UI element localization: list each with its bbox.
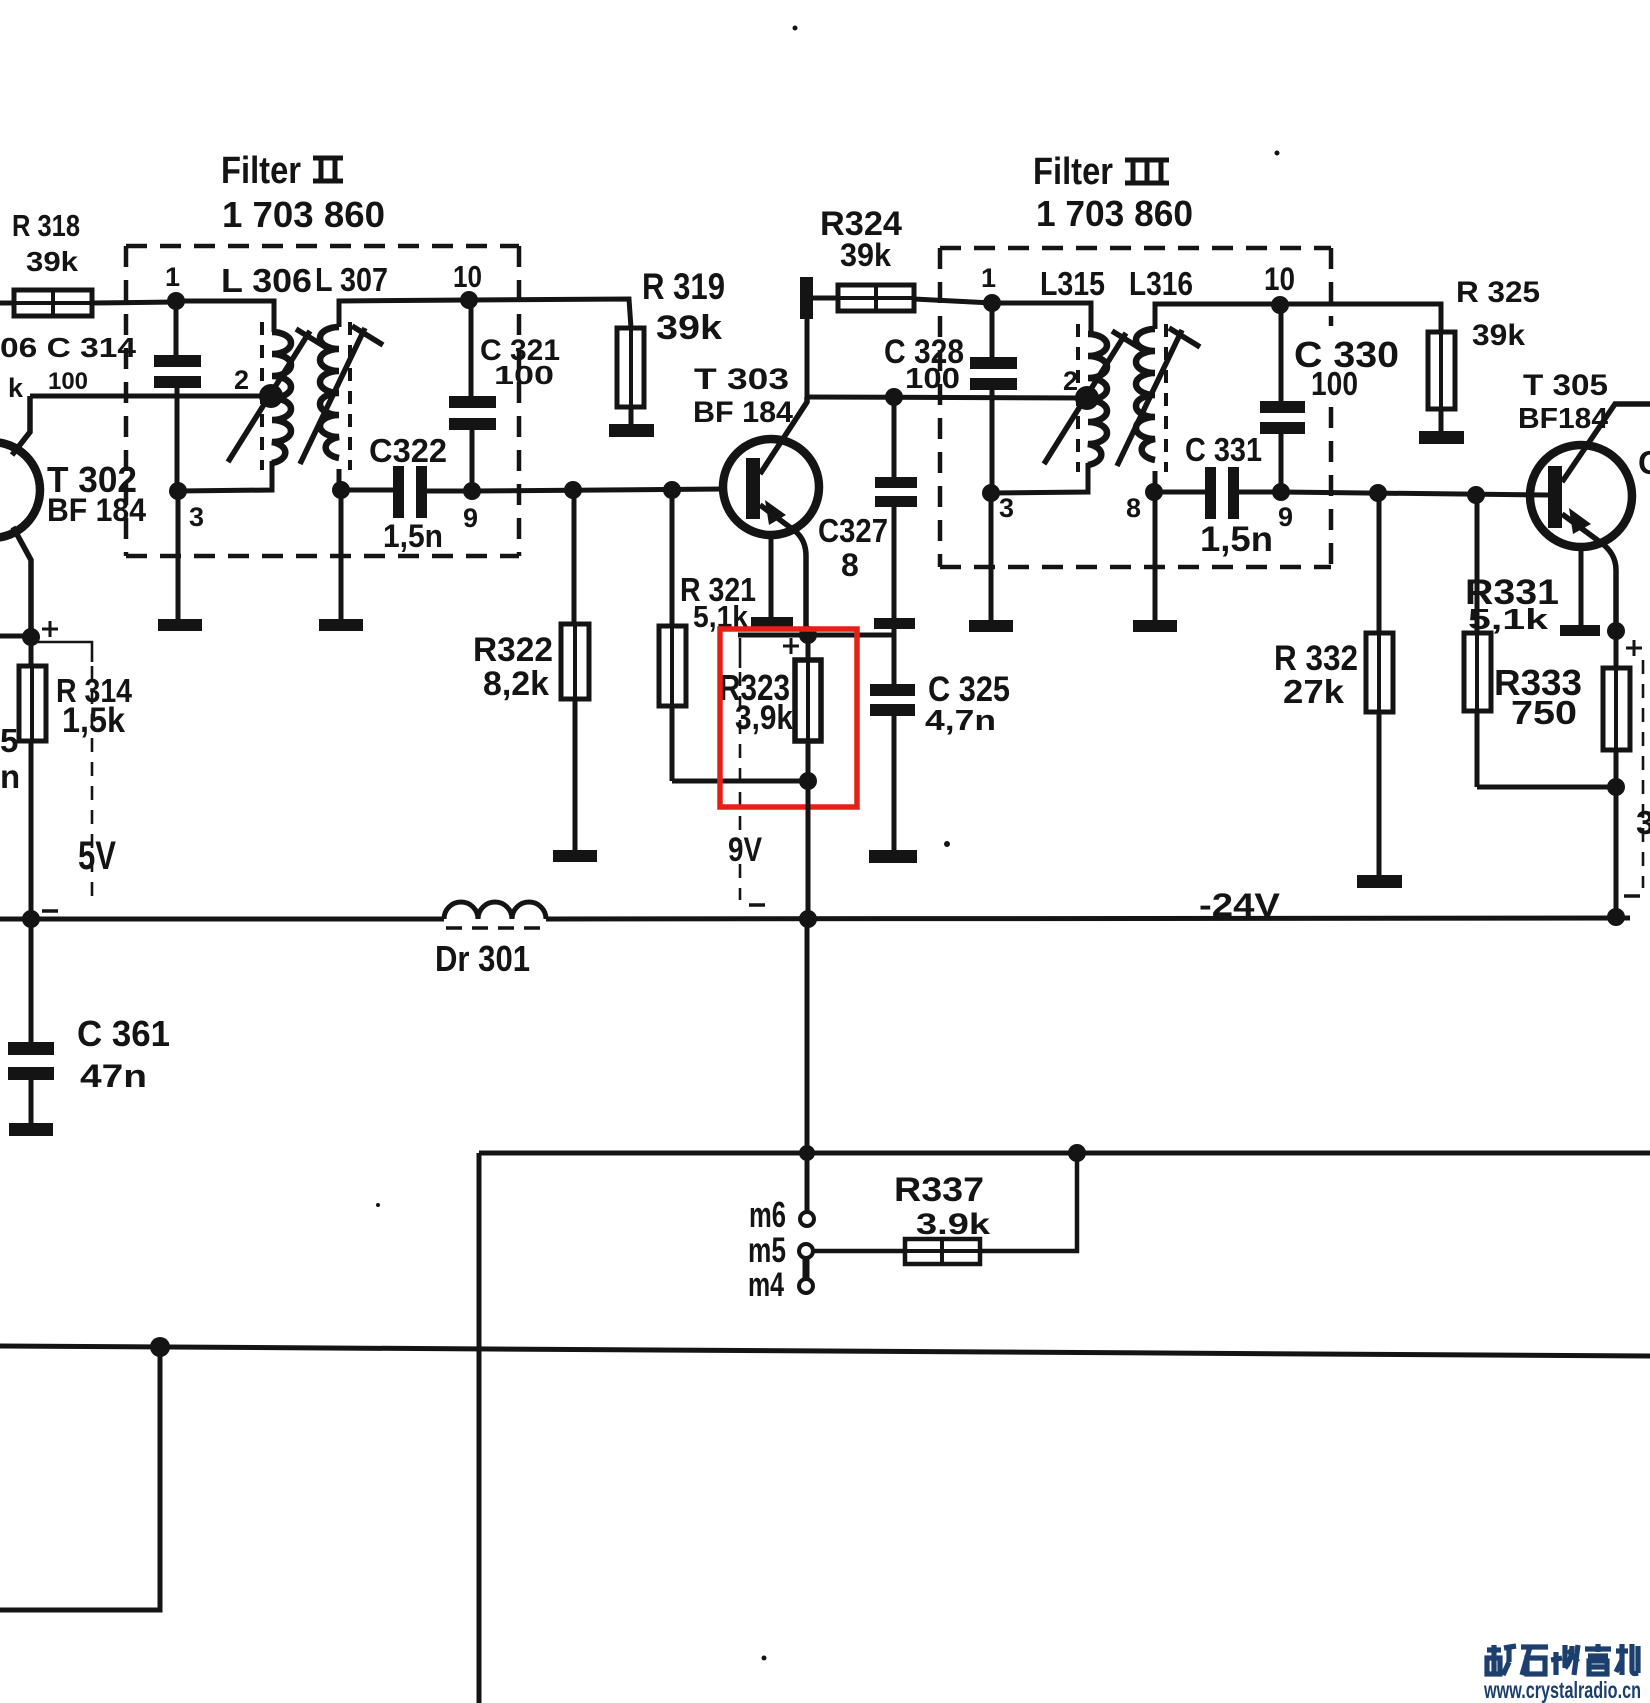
- wire m5 to R337: [813, 1249, 905, 1254]
- T303 collector lead: [760, 397, 807, 474]
- svg-text:10: 10: [453, 259, 482, 294]
- svg-text:m4: m4: [748, 1266, 784, 1304]
- T302 collector lead: [12, 396, 30, 455]
- node pin2 tap on L315: [1075, 386, 1099, 410]
- svg-text:C 361: C 361: [77, 1013, 170, 1054]
- wire node 3 to ground: [989, 493, 994, 621]
- wire L316 top to rail: [1155, 304, 1280, 329]
- wire L307 bottom node to ground: [339, 490, 344, 620]
- tuning arrow through L307: [300, 326, 383, 464]
- link m5 to m4: [803, 1256, 810, 1281]
- svg-text:T 303: T 303: [694, 363, 789, 396]
- capacitor C325: [870, 629, 915, 850]
- svg-text:3: 3: [189, 502, 204, 532]
- ground bar under C325: [869, 850, 917, 863]
- node R323 bottom junction dot: [799, 772, 817, 790]
- ground under C361: [9, 1123, 53, 1136]
- wire node 10 to R325 corner: [1280, 304, 1441, 332]
- T303 shield lead: [769, 535, 774, 618]
- svg-text:R337: R337: [894, 1171, 984, 1209]
- ground under pin 3: [158, 619, 202, 631]
- wire node 1 to L315 top corner: [992, 303, 1091, 334]
- T305 shield lead: [1579, 547, 1584, 626]
- ground bar T303 shield: [751, 617, 793, 628]
- svg-text:C327: C327: [818, 512, 888, 549]
- tuning arrow through L306: [228, 329, 327, 462]
- Filter III dashed box: [940, 248, 1331, 567]
- svg-text:Filter: Filter: [1033, 151, 1113, 193]
- node L307 bottom junction dot: [332, 481, 350, 499]
- wire base rail node9 to T303: [472, 489, 724, 491]
- wire emitter node rail: [738, 633, 894, 638]
- svg-text:100: 100: [1311, 365, 1358, 402]
- svg-text:Filter: Filter: [221, 150, 301, 192]
- svg-text:47n: 47n: [80, 1058, 147, 1094]
- svg-text:3: 3: [999, 493, 1014, 523]
- Filter II dashed box: [126, 246, 519, 556]
- connector m5: [799, 1244, 813, 1258]
- vertical line mid bottom: [477, 1153, 482, 1703]
- svg-text:1,5n: 1,5n: [383, 518, 443, 554]
- node 9 filter III junction dot: [1272, 483, 1290, 501]
- speck 4: [762, 1656, 767, 1661]
- node 1 filter III junction dot: [983, 294, 1001, 312]
- node R321 junction dot: [663, 481, 681, 499]
- wire node 10 to R319 corner: [469, 299, 631, 328]
- ground under L307: [319, 619, 363, 631]
- svg-text:C322: C322: [369, 432, 447, 469]
- bus -24V right segment: [546, 918, 1630, 919]
- svg-text:L315: L315: [1040, 265, 1105, 302]
- node R322 junction dot: [564, 481, 582, 499]
- svg-text:39k: 39k: [1472, 319, 1525, 352]
- svg-text:9V: 9V: [728, 831, 762, 869]
- ground under R319: [609, 424, 654, 437]
- svg-text:5: 5: [0, 722, 18, 759]
- speck 1: [793, 26, 798, 31]
- wire R331 bottom to R333 node: [1477, 785, 1615, 790]
- dashed annotation right: [1642, 660, 1645, 888]
- svg-text:BF184: BF184: [1518, 403, 1608, 435]
- svg-text:C: C: [1638, 444, 1650, 481]
- node C327 top junction dot: [885, 388, 903, 406]
- svg-text:8: 8: [841, 547, 859, 583]
- annotation line 9V: [739, 638, 742, 668]
- wire left edge to emitter node: [0, 634, 31, 639]
- capacitor C321: [449, 300, 496, 491]
- inductor L306 winding: [272, 332, 291, 463]
- node bus right junction dot: [1607, 908, 1625, 926]
- resistor R319: [617, 328, 644, 424]
- node bus left junction dot: [22, 910, 40, 928]
- svg-text:3,9k: 3,9k: [735, 699, 793, 737]
- capacitor C328: [970, 303, 1017, 493]
- transistor T303 circle: [723, 439, 819, 535]
- svg-text:m5: m5: [748, 1231, 786, 1270]
- resistor R333: [1603, 631, 1630, 787]
- svg-text:1,5n: 1,5n: [1200, 520, 1273, 559]
- wire R323 bottom node down to bus: [806, 781, 811, 919]
- bus -24V left segment: [0, 917, 444, 922]
- wire top-left input to R318: [0, 301, 16, 306]
- resistor R318: [14, 290, 92, 316]
- tuning arrow through L315: [1044, 331, 1143, 464]
- T305 emitter lead: [1562, 514, 1616, 631]
- connector m4: [799, 1279, 813, 1293]
- svg-text:2: 2: [234, 365, 249, 395]
- node R323 top junction dot: [799, 626, 817, 644]
- T303 base bar: [746, 458, 760, 519]
- wire C322 to node 9: [427, 489, 472, 494]
- resistor R323: [795, 635, 821, 781]
- T305 emitter arrowhead: [1569, 508, 1591, 534]
- svg-text:n: n: [0, 758, 20, 795]
- svg-text:Dr 301: Dr 301: [435, 938, 530, 979]
- node T305 emitter junction dot: [1607, 622, 1625, 640]
- svg-text:1 703 860: 1 703 860: [1036, 193, 1193, 234]
- svg-text:-24V: -24V: [1199, 887, 1281, 923]
- resistor R337: [905, 1239, 980, 1264]
- transistor T302 circle (cut at left edge): [0, 442, 40, 538]
- svg-text:m6: m6: [749, 1194, 786, 1235]
- R324 left terminal bar: [800, 277, 813, 319]
- svg-text:5V: 5V: [78, 834, 116, 878]
- svg-text:100: 100: [905, 363, 960, 395]
- long horizontal line lower: [0, 1346, 1650, 1356]
- bar on C327 column: [874, 618, 915, 629]
- ground bar T305 shield: [1560, 625, 1600, 636]
- node 8 junction dot: [1145, 483, 1163, 501]
- horizontal rail to AGC line: [479, 1151, 1650, 1156]
- plus mark right annotation: [1626, 640, 1642, 656]
- wire R337 to riser: [980, 1153, 1077, 1251]
- svg-text:BF 184: BF 184: [47, 492, 146, 528]
- capacitor C361: [8, 919, 54, 1123]
- svg-text:R322: R322: [473, 631, 553, 669]
- node R337 riser junction dot: [1068, 1144, 1086, 1162]
- resistor R325: [1428, 332, 1455, 431]
- minus mark 5V: [42, 909, 58, 913]
- core dashed line left of L306: [260, 322, 264, 470]
- inductor L315 winding: [1088, 334, 1107, 465]
- node 3 filter III junction dot: [982, 484, 1000, 502]
- wire L316 bottom to node 8: [1153, 471, 1158, 492]
- node bus middle junction dot: [799, 910, 817, 928]
- svg-text:R 319: R 319: [642, 266, 725, 307]
- svg-text:k: k: [8, 373, 24, 403]
- resistor R332: [1366, 493, 1393, 875]
- wire L307 top to top rail: [339, 300, 469, 327]
- core dashed line left of L315: [1076, 324, 1080, 472]
- wire R318 to node 1: [92, 302, 176, 303]
- svg-text:L 307: L 307: [315, 261, 388, 298]
- node R332 junction dot: [1369, 484, 1387, 502]
- resistor R322: [561, 490, 589, 850]
- svg-text:3: 3: [1636, 804, 1650, 841]
- ground under R332: [1357, 875, 1402, 888]
- inductor L307 winding: [320, 327, 339, 458]
- wire R321 bottom to R323 bottom node: [672, 779, 808, 784]
- svg-text:L 306: L 306: [221, 262, 312, 299]
- node 10 junction dot: [460, 291, 478, 309]
- T305 collector lead: [1562, 404, 1650, 482]
- ground under R325: [1419, 431, 1464, 444]
- ground under R322: [553, 850, 597, 862]
- minus mark right: [1624, 894, 1640, 898]
- svg-text:8,2k: 8,2k: [483, 665, 549, 703]
- node 10 filter III junction dot: [1271, 296, 1289, 314]
- svg-text:4,7n: 4,7n: [925, 705, 996, 737]
- wire node 9 to T305 base: [1281, 492, 1548, 495]
- T303 emitter lead: [760, 505, 806, 635]
- wire C331 to node 9: [1239, 490, 1281, 495]
- svg-text:9: 9: [1278, 502, 1293, 532]
- wire node 3 to L306 bottom: [178, 461, 272, 491]
- plus mark 5V annotation: [42, 621, 58, 637]
- wire node 8 to ground: [1153, 492, 1158, 621]
- svg-text:R 325: R 325: [1456, 276, 1540, 309]
- svg-text:1: 1: [981, 263, 996, 293]
- junction blob m6 column: [799, 1145, 815, 1161]
- svg-text:1,5k: 1,5k: [62, 701, 125, 740]
- inductor L316 winding: [1136, 329, 1155, 460]
- svg-text:BF 184: BF 184: [693, 396, 793, 429]
- node lower-left junction dot: [150, 1337, 170, 1357]
- node 1 junction dot: [167, 292, 185, 310]
- svg-text:100: 100: [48, 368, 88, 395]
- core dashed line right of L307: [348, 322, 352, 470]
- svg-text:3.9k: 3.9k: [916, 1208, 990, 1241]
- T302 emitter lead: [13, 527, 31, 637]
- resistor R314: [19, 637, 46, 919]
- wire L-shape bottom left: [0, 1347, 160, 1610]
- resistor R324: [813, 285, 992, 311]
- wire node 8 to C331: [1155, 490, 1206, 495]
- svg-text:100: 100: [494, 360, 554, 390]
- node R333 bottom junction dot: [1607, 778, 1625, 796]
- wire C314 bottom to node 3: [175, 396, 180, 491]
- T303 emitter arrowhead: [765, 500, 786, 525]
- svg-text:8: 8: [1126, 493, 1141, 523]
- svg-text:C 325: C 325: [928, 670, 1010, 709]
- wire T303 collector rail: [807, 397, 1087, 398]
- choke Dr301 core dashed: [446, 926, 545, 930]
- capacitor C327: [875, 398, 917, 618]
- svg-text:2: 2: [1063, 366, 1078, 396]
- node T302 emitter junction dot: [22, 628, 40, 646]
- svg-text:1: 1: [165, 262, 180, 292]
- tuning arrow through L316: [1117, 328, 1200, 466]
- resistor R331: [1464, 495, 1491, 787]
- connector m6: [800, 1212, 814, 1226]
- node 3 junction dot: [169, 482, 187, 500]
- dashed annotation 9V: [739, 672, 742, 900]
- annotation elbow 5V: [36, 642, 92, 662]
- capacitor C330: [1260, 305, 1305, 492]
- ground under pin 8: [1133, 620, 1177, 632]
- plus mark 9V: [783, 638, 799, 654]
- capacitor C322: [393, 466, 427, 518]
- red highlight box: [720, 629, 857, 807]
- wire R333 node to bus: [1614, 787, 1619, 918]
- wire L307 bottom to node: [337, 469, 342, 490]
- wire bus to m6 connector: [805, 919, 810, 1212]
- svg-text:06 C 314: 06 C 314: [0, 332, 137, 363]
- dashed annotation line 5V: [91, 666, 94, 905]
- svg-text:C 331: C 331: [1185, 431, 1262, 468]
- wire node 3 to ground: [176, 491, 181, 620]
- svg-text:L316: L316: [1129, 265, 1193, 302]
- svg-text:R 318: R 318: [12, 208, 80, 243]
- speck 3: [944, 841, 950, 847]
- svg-text:39k: 39k: [26, 246, 78, 277]
- svg-text:39k: 39k: [840, 237, 891, 273]
- wire node 1 to L306 top corner: [176, 301, 274, 332]
- svg-text:10: 10: [1264, 261, 1295, 297]
- node 9 junction dot: [463, 482, 481, 500]
- resistor R321: [659, 490, 686, 781]
- wire node to C322: [341, 488, 394, 493]
- core dashed line right of L316: [1164, 324, 1168, 472]
- minus mark 9V: [749, 903, 765, 907]
- svg-text:T 305: T 305: [1523, 369, 1608, 402]
- speck 2: [1275, 151, 1280, 156]
- wire node 3 to L315 bottom: [991, 463, 1088, 493]
- svg-text:750: 750: [1511, 694, 1577, 731]
- choke Dr301: [444, 902, 546, 919]
- capacitor C331: [1205, 467, 1239, 519]
- node R331 junction dot: [1467, 486, 1485, 504]
- transistor T305 circle: [1530, 445, 1632, 547]
- ground under pin 3 filter III: [969, 620, 1013, 632]
- riser to R324: [805, 319, 810, 400]
- capacitor C314: [154, 301, 201, 396]
- speck 5: [376, 1203, 380, 1207]
- T305 base bar: [1548, 466, 1562, 528]
- wire pin2 horizontal: [30, 394, 272, 399]
- svg-text:1 703 860: 1 703 860: [222, 194, 385, 235]
- svg-text:5,1k: 5,1k: [1468, 604, 1549, 636]
- node pin2 tap on L306: [259, 384, 283, 408]
- watermark CJK glyphs: [1487, 1644, 1638, 1675]
- svg-text:9: 9: [463, 503, 478, 533]
- svg-text:27k: 27k: [1283, 673, 1345, 710]
- svg-text:www.crystalradio.cn: www.crystalradio.cn: [1483, 1677, 1641, 1703]
- svg-text:39k: 39k: [656, 309, 722, 347]
